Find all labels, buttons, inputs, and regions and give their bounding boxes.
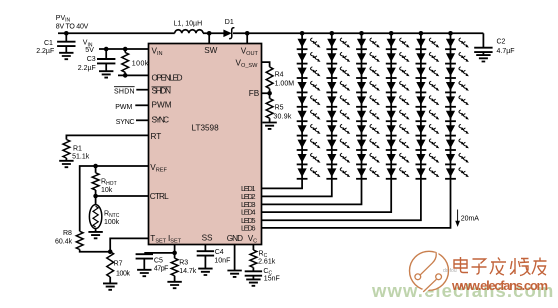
- wire TSET net (R8/R7 rail): [80, 250, 111, 252]
- svg-text:C5: C5: [154, 257, 163, 264]
- svg-text:60.4k: 60.4k: [55, 239, 73, 246]
- wire LED string 5 column: [262, 33, 421, 220]
- 20mA current annotation: [455, 210, 479, 227]
- wire CTRL net: [93, 194, 98, 199]
- watermark brand text dianzifashaoyou: [454, 257, 547, 276]
- svg-text:RT: RT: [151, 132, 162, 141]
- svg-text:1.00M: 1.00M: [275, 81, 295, 88]
- wire RT net: [66, 135, 148, 139]
- op-amp U1 LT3598 LED driver IC: [149, 44, 262, 245]
- svg-text:PWM: PWM: [115, 104, 132, 111]
- svg-text:15nF: 15nF: [264, 276, 280, 283]
- svg-text:R4: R4: [275, 71, 284, 78]
- svg-text:10nF: 10nF: [214, 257, 230, 264]
- svg-text:GND: GND: [227, 234, 243, 243]
- svg-text:D1: D1: [225, 19, 234, 26]
- capacitor C3: [105, 49, 107, 59]
- svg-text:R7: R7: [114, 260, 123, 267]
- svg-text:100k: 100k: [104, 219, 120, 226]
- LED string 6 (10 LEDs): [445, 38, 469, 179]
- svg-text:SHDN: SHDN: [114, 88, 135, 95]
- svg-text:ds fou: ds fou: [443, 268, 457, 274]
- wire OPENLED net: [118, 74, 149, 76]
- thermistor RNTC 100k: [95, 196, 97, 205]
- wire VIN net: [99, 48, 149, 50]
- node LED string 6 top junction: [448, 31, 453, 36]
- wire LED string 2 column: [262, 33, 332, 196]
- capacitor C5 47pF: [136, 254, 153, 258]
- wire LED string 4 column: [262, 33, 392, 212]
- watermark logo circle: [410, 251, 449, 292]
- svg-text:C2: C2: [497, 38, 506, 45]
- ground (RNTC): [88, 232, 102, 238]
- resistor 100k (OPENLED pullup): [124, 49, 126, 53]
- resistor RC 2.61k: [250, 250, 257, 268]
- svg-text:PWM: PWM: [152, 100, 172, 109]
- node LED string 1 top junction: [300, 31, 305, 36]
- svg-text:C1: C1: [44, 40, 53, 47]
- svg-text:47pF: 47pF: [154, 266, 169, 273]
- wire VOUT pin stub: [246, 33, 248, 43]
- svg-text:L1, 10µH: L1, 10µH: [174, 21, 203, 28]
- svg-text:20mA: 20mA: [461, 216, 480, 223]
- wire SYNC: [136, 119, 149, 121]
- svg-text:C4: C4: [215, 249, 224, 256]
- svg-text:SS: SS: [202, 234, 213, 243]
- wire VC net: [252, 245, 254, 251]
- ground (C2): [476, 55, 490, 61]
- svg-text:100k: 100k: [116, 270, 131, 277]
- wire GND pin: [234, 245, 236, 271]
- LED string 3 (10 LEDs): [356, 38, 380, 179]
- node PVIN input: [64, 31, 69, 36]
- resistor R8 60.4k: [76, 231, 83, 249]
- wire PWM: [135, 104, 148, 106]
- ground (GND pin): [227, 271, 241, 277]
- resistor R4 1.00M: [266, 67, 273, 89]
- LED string 5 (10 LEDs): [416, 38, 440, 179]
- svg-text:SYNC: SYNC: [116, 119, 135, 126]
- svg-text:8V TO 40V: 8V TO 40V: [56, 24, 89, 31]
- ground (C5): [137, 270, 151, 276]
- ground (CC): [246, 279, 260, 285]
- svg-text:SHDN: SHDN: [152, 87, 172, 96]
- wire LED string 6 column: [262, 33, 451, 228]
- LED string 1 (10 LEDs): [297, 38, 321, 179]
- node LED string 5 top junction: [419, 31, 424, 36]
- svg-text:C3: C3: [87, 56, 96, 63]
- svg-text:SW: SW: [204, 46, 217, 55]
- wire VO_SW net: [262, 62, 270, 67]
- svg-text:100k: 100k: [132, 61, 149, 68]
- capacitor C1: [65, 33, 67, 41]
- svg-text:10k: 10k: [101, 187, 113, 194]
- ground (C1): [59, 53, 73, 59]
- svg-text:SYNC: SYNC: [152, 115, 170, 124]
- wire LED string 1 column: [262, 33, 303, 188]
- wire VREF net: [80, 166, 149, 231]
- svg-text:R1: R1: [73, 145, 82, 152]
- svg-text:FB: FB: [249, 89, 260, 98]
- svg-text:51.1k: 51.1k: [72, 153, 90, 160]
- svg-text:R5: R5: [275, 104, 284, 111]
- svg-text:2.2µF: 2.2µF: [78, 65, 96, 72]
- svg-text:30.9k: 30.9k: [273, 113, 292, 120]
- wire SW pin stub: [208, 33, 210, 43]
- ground (C3): [99, 71, 113, 77]
- svg-text:2.61k: 2.61k: [258, 259, 276, 266]
- svg-text:5V: 5V: [85, 47, 94, 54]
- capacitor CC 15nF: [245, 271, 262, 275]
- svg-text:14.7k: 14.7k: [179, 268, 197, 275]
- diode D1 (schottky): [223, 19, 234, 39]
- svg-text:R8: R8: [63, 230, 72, 237]
- ground (C4): [198, 269, 212, 275]
- svg-text:R3: R3: [179, 260, 188, 267]
- svg-text:LT3598: LT3598: [192, 123, 220, 132]
- svg-text:LED6: LED6: [241, 224, 256, 233]
- ground (R3): [167, 282, 181, 288]
- wire ISET net: [174, 245, 176, 253]
- capacitor C4 10nF: [197, 251, 214, 255]
- ground (R7): [103, 283, 117, 289]
- node SW junction: [207, 31, 212, 36]
- ground (R5): [262, 123, 276, 129]
- wire SHDN: [136, 89, 148, 91]
- wire FB net: [262, 89, 270, 99]
- resistor R5 30.9k: [266, 99, 273, 119]
- node VOUT junction: [245, 31, 250, 36]
- svg-text:CTRL: CTRL: [150, 192, 169, 201]
- node LED string 4 top junction: [389, 31, 394, 36]
- svg-text:2.2µF: 2.2µF: [36, 48, 54, 55]
- wire LED string 3 column: [262, 33, 362, 204]
- node LED string 3 top junction: [359, 31, 364, 36]
- svg-text:www.elecfans.com: www.elecfans.com: [451, 278, 548, 293]
- capacitor C2 4.7uF: [482, 33, 484, 47]
- resistor R7 100k: [107, 252, 114, 277]
- node LED string 2 top junction: [330, 31, 335, 36]
- wire PVIN top rail: [58, 32, 483, 34]
- resistor RHOT 10k: [95, 166, 97, 173]
- resistor R3 14.7k: [171, 258, 178, 276]
- inductor L1: [175, 30, 203, 34]
- svg-text:OPENLED: OPENLED: [152, 73, 183, 82]
- resistor R1: [63, 140, 70, 159]
- ground (R1): [59, 161, 73, 167]
- wire SS net: [204, 245, 206, 251]
- LED string 2 (10 LEDs): [326, 38, 350, 179]
- svg-text:4.7µF: 4.7µF: [497, 48, 515, 55]
- LED string 4 (10 LEDs): [386, 38, 410, 179]
